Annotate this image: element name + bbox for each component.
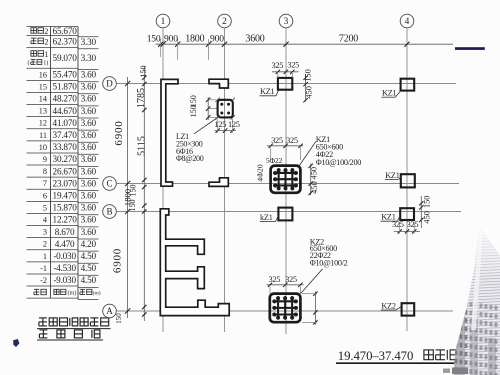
svg-text:450: 450 [423, 211, 432, 224]
svg-text:12.270: 12.270 [53, 215, 78, 225]
svg-text:16: 16 [39, 70, 47, 79]
svg-text:7200: 7200 [339, 34, 358, 45]
sheet title 19.470-37.470 zhu ping fa [336, 349, 458, 363]
column LZ1 at axis2 detail [215, 98, 235, 120]
faint building photo right side [443, 225, 500, 375]
dim 325/325 above big KZ1 [267, 136, 303, 160]
label KZ1 for axis3/D column [260, 87, 279, 96]
svg-text:55.470: 55.470 [53, 70, 78, 80]
svg-text:Φ10@100/200: Φ10@100/200 [316, 158, 361, 167]
text block LZ1 250x300 [176, 132, 204, 163]
svg-text:4.470: 4.470 [55, 239, 75, 249]
leader from LZ1 text to column [194, 118, 218, 134]
axis line A horizontal [116, 310, 453, 312]
svg-text:4: 4 [43, 216, 48, 225]
svg-text:150: 150 [422, 196, 431, 209]
svg-text:3.60: 3.60 [81, 82, 97, 92]
shear wall W4 (axis1, B-A, E-shaped) [160, 209, 229, 316]
dim 150/450 right of axis4/B column [419, 196, 432, 228]
svg-text:1: 1 [44, 50, 48, 59]
svg-text:KZ1: KZ1 [260, 87, 275, 96]
column KZ1 at axis4/B [400, 208, 414, 220]
svg-text:19.470: 19.470 [53, 191, 78, 201]
axis line 3 vertical [285, 28, 287, 334]
svg-text:65.670: 65.670 [53, 26, 78, 36]
svg-text:44.670: 44.670 [53, 106, 78, 116]
svg-text:(m): (m) [93, 290, 101, 297]
svg-text:Φ8@200: Φ8@200 [176, 154, 204, 163]
grid bubble axis D [103, 77, 117, 91]
svg-text:14: 14 [39, 95, 48, 104]
svg-text:3.60: 3.60 [81, 106, 97, 116]
svg-text:2: 2 [43, 240, 47, 249]
svg-text:900: 900 [164, 34, 178, 45]
svg-text:2: 2 [44, 27, 48, 36]
shear wall W3 (axis2, row C return) [209, 178, 228, 187]
svg-text:3.60: 3.60 [81, 154, 97, 164]
label kZ1 for axis3/B column [260, 213, 279, 222]
svg-text:1: 1 [161, 17, 166, 27]
svg-text:325: 325 [286, 136, 298, 145]
svg-text:4.50: 4.50 [81, 275, 97, 285]
svg-text:5Φ22: 5Φ22 [266, 156, 283, 165]
svg-text:4.50: 4.50 [81, 263, 97, 273]
svg-text:15: 15 [39, 82, 47, 91]
text block KZ2 650x600 [310, 238, 348, 268]
grid bubble axis A [103, 304, 117, 318]
svg-text:2: 2 [222, 17, 227, 27]
svg-text:3.60: 3.60 [81, 215, 97, 225]
svg-text:(: ( [28, 59, 30, 66]
svg-text:3: 3 [43, 228, 47, 237]
caption: jiegou lou mian biaogao [37, 318, 111, 329]
svg-text:150: 150 [128, 199, 137, 211]
svg-text:3.60: 3.60 [81, 130, 97, 140]
svg-text:7: 7 [43, 179, 47, 188]
caption: jiegou cenggao [37, 330, 103, 340]
svg-text:C: C [106, 179, 112, 189]
axis line D horizontal [116, 83, 456, 85]
svg-text:1): 1) [43, 59, 48, 66]
svg-text:15.870: 15.870 [53, 203, 78, 213]
svg-text:1800: 1800 [185, 34, 204, 45]
svg-text:3600: 3600 [245, 34, 264, 45]
svg-text:450: 450 [310, 167, 319, 180]
svg-text:KZ2: KZ2 [381, 301, 396, 310]
navy bar top right (photo fragment) [455, 47, 485, 50]
svg-text:41.070: 41.070 [53, 118, 78, 128]
svg-text:12: 12 [39, 119, 47, 128]
svg-text:150: 150 [129, 184, 138, 196]
blue bullet mark [13, 339, 19, 347]
svg-text:3.60: 3.60 [81, 203, 97, 213]
svg-text:B: B [106, 207, 112, 217]
svg-text:150: 150 [147, 34, 161, 45]
svg-text:6900: 6900 [112, 248, 124, 273]
svg-text:3.60: 3.60 [81, 94, 97, 104]
svg-text:62.370: 62.370 [53, 37, 78, 47]
svg-text:325: 325 [271, 61, 283, 70]
column KZ1 at axis4/C [401, 174, 415, 187]
label KZ1 for axis4/B column [381, 213, 401, 222]
dim bracket right of big KZ2 [302, 292, 318, 325]
dim 150/450 right of axis3/D column [303, 69, 313, 102]
axis line 1 vertical [162, 28, 164, 332]
dim 450/450 right of big KZ1 [309, 164, 319, 196]
leader from KZ2 text to big column [301, 269, 323, 294]
svg-text:-0.030: -0.030 [53, 251, 76, 261]
grid bubble axis 4 [400, 14, 414, 28]
svg-text:3.30: 3.30 [81, 37, 97, 47]
big column detail KZ1 650x600 at axis3/C [271, 166, 301, 193]
svg-text:900: 900 [210, 34, 224, 45]
svg-text:125: 125 [214, 120, 226, 129]
svg-text:450: 450 [310, 181, 319, 194]
svg-text:1785: 1785 [136, 88, 147, 108]
svg-text:3.60: 3.60 [81, 178, 97, 188]
svg-text:325: 325 [407, 220, 419, 229]
dim 325/325 above big KZ2 [267, 275, 304, 294]
column KZ1 at axis4/D [401, 79, 415, 91]
dim 325/325 below axis4/B column [392, 220, 420, 233]
svg-text:3.30: 3.30 [81, 53, 97, 63]
svg-text:325: 325 [268, 275, 280, 284]
svg-text:51.870: 51.870 [53, 82, 78, 92]
svg-text:3.60: 3.60 [81, 118, 97, 128]
svg-text:-9.030: -9.030 [53, 275, 76, 285]
svg-text:33.870: 33.870 [53, 142, 78, 152]
svg-text:8.670: 8.670 [55, 227, 75, 237]
label KZ1 for axis4/C column [385, 171, 401, 180]
leader from KZ1 text to big column [300, 142, 316, 166]
svg-text:13: 13 [39, 107, 47, 116]
svg-text:19.470–37.470: 19.470–37.470 [338, 349, 413, 363]
svg-text:325: 325 [287, 61, 299, 70]
svg-text:150: 150 [189, 105, 198, 117]
shear wall W2 (axis2, row D return) [209, 79, 228, 88]
svg-text:9: 9 [43, 155, 47, 164]
svg-text:6: 6 [43, 191, 47, 200]
grid bubble axis 3 [279, 14, 293, 28]
svg-text:5115: 5115 [137, 136, 148, 156]
dim 325/325 above axis3/D column [271, 61, 299, 78]
svg-text:A: A [106, 306, 113, 316]
svg-text:26.670: 26.670 [53, 166, 78, 176]
grid bubble axis B [103, 205, 117, 219]
svg-text:-1: -1 [40, 264, 47, 273]
dim 125/125 below LZ1 [214, 119, 239, 133]
column KZ1 at axis3/B [278, 208, 292, 221]
svg-text:23.070: 23.070 [53, 178, 78, 188]
column KZ1 at axis3/D [278, 78, 292, 90]
svg-text:325: 325 [392, 220, 404, 229]
svg-text:3.60: 3.60 [81, 191, 97, 201]
svg-text:4.20: 4.20 [81, 239, 97, 249]
svg-text:3: 3 [284, 17, 289, 27]
svg-text:4: 4 [405, 17, 410, 27]
svg-text:11: 11 [39, 131, 47, 140]
column KZ2 at axis4/A [402, 303, 415, 315]
svg-text:(m): (m) [68, 290, 77, 297]
svg-text:2: 2 [44, 37, 48, 46]
shear wall W1 (axis1, D-C) [161, 79, 178, 186]
svg-text:3.60: 3.60 [81, 70, 97, 80]
svg-text:450: 450 [305, 86, 314, 99]
svg-text:1: 1 [43, 252, 47, 261]
svg-text:125: 125 [228, 120, 240, 129]
grid bubble axis 1 [156, 14, 170, 28]
svg-text:30.270: 30.270 [53, 154, 78, 164]
svg-text:KZ1: KZ1 [382, 89, 397, 98]
svg-text:6900: 6900 [113, 120, 125, 145]
svg-text:150: 150 [115, 313, 123, 324]
svg-text:150: 150 [139, 66, 148, 78]
svg-text:kZ1: kZ1 [260, 213, 273, 222]
axis line 2 vertical [224, 28, 226, 332]
label KZ2 for axis4/A column [381, 301, 402, 310]
big column detail KZ2 650x600 at axis3/A [270, 294, 301, 323]
svg-text:8: 8 [43, 167, 47, 176]
grid bubble axis C [103, 177, 117, 191]
svg-text:3.60: 3.60 [81, 166, 97, 176]
svg-text:37.470: 37.470 [53, 130, 78, 140]
svg-text:48.270: 48.270 [53, 94, 78, 104]
svg-text:3.60: 3.60 [81, 142, 97, 152]
svg-text:150: 150 [189, 95, 198, 107]
svg-text:KZ1: KZ1 [385, 171, 400, 180]
svg-text:-2: -2 [40, 276, 47, 285]
svg-text:D: D [106, 79, 113, 89]
top dimension line [147, 34, 453, 60]
dim 150/150 left of LZ1 [189, 95, 217, 120]
svg-text:-4.530: -4.530 [53, 263, 76, 273]
svg-text:5: 5 [43, 203, 47, 212]
text block KZ1 650x600 [316, 135, 361, 167]
svg-text:4Φ20: 4Φ20 [256, 164, 265, 181]
svg-text:325: 325 [271, 136, 283, 145]
axis line C horizontal [116, 183, 459, 185]
label KZ1 for axis4/D column [382, 89, 401, 98]
svg-text:4.50: 4.50 [81, 251, 97, 261]
svg-text:150: 150 [303, 69, 312, 82]
axis line B horizontal [116, 211, 461, 213]
svg-text:59.070: 59.070 [53, 53, 78, 63]
storey table [27, 26, 101, 299]
left inner dimension line (150/1785/5115/150...) [115, 66, 148, 324]
svg-text:3.60: 3.60 [81, 227, 97, 237]
axis line 4 vertical [406, 28, 408, 331]
photo bottom scraps [443, 369, 450, 373]
svg-text:10: 10 [39, 143, 47, 152]
grid bubble axis 2 [218, 14, 232, 28]
svg-text:Φ10@100/2: Φ10@100/2 [310, 259, 348, 268]
left outer dimension line (6900/1800/6900) [112, 77, 133, 318]
